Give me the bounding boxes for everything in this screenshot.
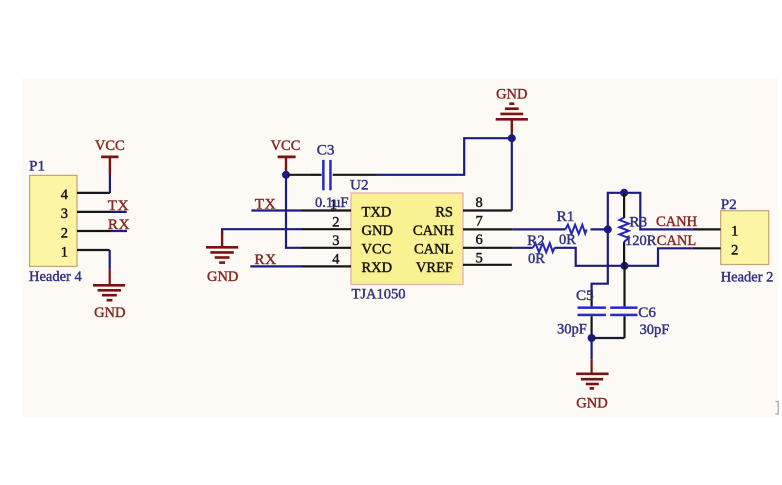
svg-text:RS: RS [435,205,453,221]
resistor R1 [565,225,586,234]
wire stub junction to ground stem [511,133,513,138]
P1 pin 2 stub [77,230,110,232]
ground symbol top (inverted) [496,104,528,133]
svg-text:7: 7 [476,214,483,230]
junction node C5/C6/GND [588,334,596,342]
C5 bottom lead [590,316,592,338]
svg-text:30pF: 30pF [557,322,587,338]
svg-text:U2: U2 [350,176,369,193]
P2 pin 1 stub [693,228,721,230]
junction node CANH/C5 [604,225,612,233]
svg-text:C6: C6 [638,304,656,321]
svg-text:VREF: VREF [416,260,453,276]
wire VCC junction to C3 left plate [288,174,311,176]
svg-text:GND: GND [362,223,393,239]
C6 bottom lead [623,316,625,338]
svg-text:0R: 0R [528,251,545,267]
svg-text:2: 2 [731,242,738,258]
U2 pin 4 stub [301,265,351,267]
svg-text:C3: C3 [317,141,335,158]
capacitor C3 [322,160,332,190]
U2 pin 5 stub [463,264,512,266]
wire RX stub at P1 pin 2 [110,230,127,232]
resistor R2 [533,243,555,252]
svg-text:0.1uF: 0.1uF [315,195,348,211]
junction node VCC/C3 [282,171,290,179]
ground symbol left of U2 [206,232,238,263]
op IC U2 TJA1050 body [351,193,463,285]
wire VCC stem to junction [285,171,287,175]
svg-text:P1: P1 [29,158,45,175]
wire C3 to corner [376,138,512,175]
svg-text:TX: TX [255,195,276,212]
connector P1 body [30,175,77,266]
wire RX to U2 pin 4 [250,265,301,267]
U2 pin 3 stub [301,247,351,249]
junction node top GND [508,134,516,142]
svg-text:8: 8 [476,195,483,211]
U2 pin 6 stub [463,247,513,249]
U2 pin 1 stub [301,209,351,211]
svg-text:R3: R3 [629,213,647,230]
wire VCC drop to P1 pin 4 [109,174,111,193]
U2 pin 8 stub [463,209,512,211]
C6 top lead [623,266,625,307]
power symbol VCC (U2) [278,157,296,172]
P1 pin 1 stub [77,249,110,251]
svg-text:GND: GND [94,305,125,321]
svg-text:R1: R1 [557,208,575,225]
svg-text:CANL: CANL [414,242,453,258]
svg-text:GND: GND [576,396,607,412]
capacitor C6 [610,306,637,316]
svg-text:CANL: CANL [657,233,696,249]
svg-text:Header 4: Header 4 [29,269,82,285]
svg-text:120R: 120R [625,233,657,249]
wire C6 to ground junction [592,337,625,339]
svg-text:2: 2 [61,225,68,241]
svg-text:30pF: 30pF [640,322,670,338]
wire U2 pin 7 to R1 [513,228,566,230]
connector P2 body [721,211,769,265]
svg-text:VCC: VCC [362,242,392,258]
svg-text:0R: 0R [559,232,576,248]
wire R2 to CANL run [555,248,693,266]
wire top GND junction down to U2 pin 8 [511,138,513,210]
svg-text:GND: GND [496,87,527,103]
wire R1 to CANH junction [591,228,608,230]
svg-text:RX: RX [254,251,276,268]
R3 top lead [623,193,625,218]
R3 bottom lead [623,242,625,266]
P1 pin 4 stub [77,192,110,194]
stray bracket mark [775,402,778,415]
C3 right lead [333,174,376,176]
svg-text:4: 4 [61,187,69,203]
svg-text:GND: GND [207,269,238,285]
svg-text:RX: RX [108,216,130,233]
svg-text:Header 2: Header 2 [721,269,774,285]
wire CANH junction up and over R3 [608,193,693,230]
power symbol VCC (P1) [101,157,118,175]
svg-text:TX: TX [108,197,129,214]
svg-text:TXD: TXD [362,205,392,221]
U2 pin 7 stub [463,228,513,230]
svg-text:3: 3 [61,206,68,222]
junction node R3 top [620,189,628,197]
svg-text:R2: R2 [527,232,545,249]
wire P1 pin 1 down to ground [109,250,111,269]
svg-text:1: 1 [61,244,68,260]
capacitor C5 [578,306,606,316]
wire TX to U2 pin 1 [251,209,301,211]
wire TX stub at P1 pin 3 [110,211,127,213]
svg-text:P2: P2 [721,196,737,213]
ground symbol below P1 [93,269,125,300]
wire ground junction down [590,338,592,360]
svg-text:CANH: CANH [656,214,698,230]
U2 pin 2 stub [301,228,351,230]
wire CANH junction down to C5 [592,229,608,296]
svg-text:CANH: CANH [413,223,455,239]
C5 top lead [590,290,592,306]
svg-text:VCC: VCC [95,138,125,154]
resistor R3 [619,218,628,242]
svg-text:RXD: RXD [362,260,393,276]
svg-text:6: 6 [476,232,483,248]
C3 left lead [311,174,322,176]
svg-text:TJA1050: TJA1050 [352,287,406,303]
wire U2 pin 6 to R2 [513,247,533,249]
wire VCC vertical down to U2 pin 3 [286,175,301,248]
wire U2 pin 2 to ground [222,229,301,233]
svg-text:1: 1 [731,224,738,240]
ground symbol bottom [576,360,609,389]
P2 pin 2 stub [693,247,721,249]
svg-text:C5: C5 [576,287,594,304]
svg-text:VCC: VCC [271,138,301,154]
P1 pin 3 stub [77,211,110,213]
junction node CANL/R3/C6 [621,262,629,270]
